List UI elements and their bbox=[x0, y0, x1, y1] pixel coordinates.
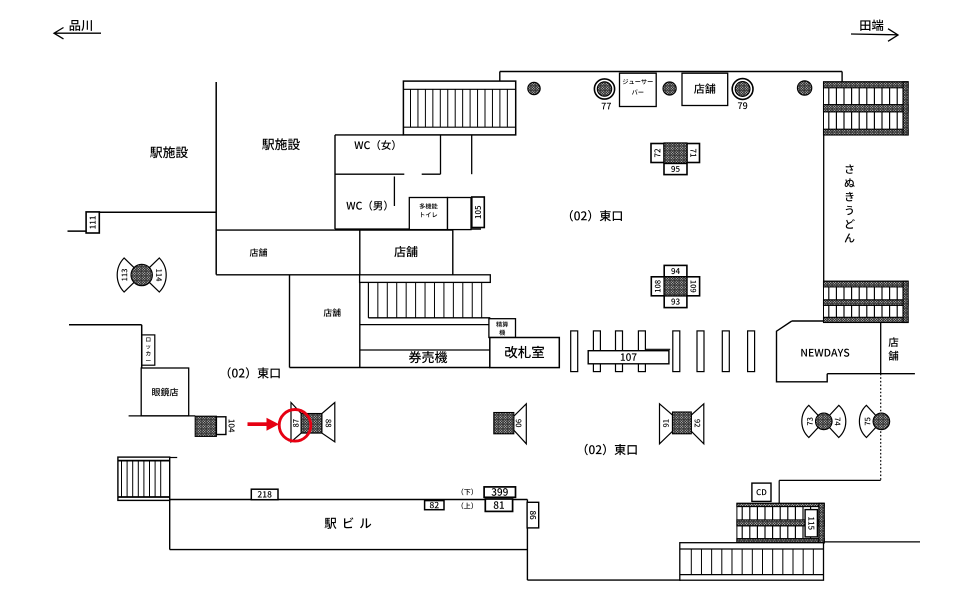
wall concourse top bbox=[500, 71, 842, 73]
board 107 bbox=[646, 348, 670, 350]
label east exit bottom bbox=[585, 444, 637, 455]
room WC men bbox=[393, 177, 395, 207]
wall station-facility vertical bbox=[215, 82, 217, 275]
wall left horizontal bbox=[99, 211, 216, 213]
room shop lower bbox=[289, 275, 291, 368]
shop box top bbox=[682, 73, 728, 105]
red circle position 87 bbox=[279, 410, 311, 442]
pillar 77 with ad ring bbox=[594, 79, 614, 99]
board 111 bbox=[86, 212, 99, 233]
staircase north bbox=[403, 81, 515, 135]
pillar top 3 bbox=[797, 81, 811, 95]
arrow to Shinagawa (top left) bbox=[70, 20, 92, 31]
board 81 up bbox=[462, 502, 473, 509]
board 115 bbox=[805, 510, 817, 537]
pillar 79 with ad ring bbox=[732, 79, 753, 100]
wall locker area bbox=[69, 324, 142, 326]
escalator upper right bbox=[824, 82, 909, 135]
ad boards 91/92 bbox=[660, 404, 673, 444]
pillar with boards 72/71/95 bbox=[651, 144, 664, 163]
wall top-right step bbox=[841, 72, 843, 83]
glasses shop bbox=[141, 368, 189, 416]
wall below glasses shop bbox=[129, 415, 196, 417]
staircase bottom-right bbox=[680, 543, 824, 581]
board CD bbox=[752, 483, 771, 501]
board 399 down bbox=[462, 489, 473, 496]
locker box bbox=[142, 335, 155, 365]
label ekishisetsu right bbox=[262, 138, 300, 150]
board 218 bbox=[251, 489, 278, 500]
wall sanuki left bbox=[823, 135, 825, 281]
wall shop strip bottom bbox=[216, 274, 360, 276]
pillar 113/114 bbox=[117, 258, 134, 292]
room multi-function toilet bbox=[409, 198, 447, 230]
red arrow bbox=[248, 418, 280, 431]
wall bottom right bbox=[824, 541, 921, 543]
escalator bottom bbox=[737, 503, 824, 543]
kiosk juicer bar bbox=[620, 73, 657, 106]
station building outline bbox=[170, 499, 528, 501]
wall to escalator bbox=[779, 479, 881, 481]
ad boards 87/88 bbox=[291, 403, 301, 442]
label east exit top bbox=[570, 210, 622, 221]
fare adjustment machine bbox=[489, 319, 516, 338]
pillar with boards 94/108/93/109 bbox=[664, 265, 687, 276]
pillar 73/74 bbox=[802, 405, 819, 437]
pillar top 2 bbox=[663, 82, 676, 95]
ticket machines strip bbox=[360, 324, 490, 326]
wall top-left step bbox=[499, 72, 501, 82]
wall NEWDAYS top bbox=[792, 320, 824, 322]
room next to toilet bbox=[448, 198, 472, 230]
shop NEWDAYS outline bbox=[777, 321, 828, 382]
label shop vertical bbox=[889, 337, 899, 347]
shaft below north staircase bbox=[440, 135, 442, 174]
pillar top 1 bbox=[528, 82, 540, 94]
escalator lower right bbox=[824, 281, 909, 322]
ticket gate bars bbox=[571, 331, 578, 372]
board 86 bbox=[527, 502, 539, 528]
label ekishisetsu left bbox=[150, 146, 188, 158]
wall stub left bbox=[68, 230, 87, 232]
board 82 bbox=[425, 501, 444, 510]
ticket gate office bbox=[490, 338, 560, 368]
wall concourse bottom bbox=[290, 367, 490, 369]
label east exit left bbox=[228, 367, 280, 378]
label sanuki udon bbox=[846, 164, 854, 173]
staircase bottom-left bbox=[118, 457, 170, 500]
staircase middle bbox=[360, 275, 491, 283]
dotted guide line bbox=[880, 374, 882, 481]
room WC women bbox=[334, 135, 336, 229]
ad board 90 bbox=[514, 404, 527, 444]
wall shop divider bbox=[880, 323, 882, 374]
board 105 bbox=[472, 197, 485, 228]
pillar with board 104 bbox=[195, 416, 216, 436]
shops upper strip bbox=[216, 229, 453, 231]
arrow to Tabata (top right) bbox=[860, 20, 883, 31]
pillar 75 bbox=[859, 405, 876, 437]
